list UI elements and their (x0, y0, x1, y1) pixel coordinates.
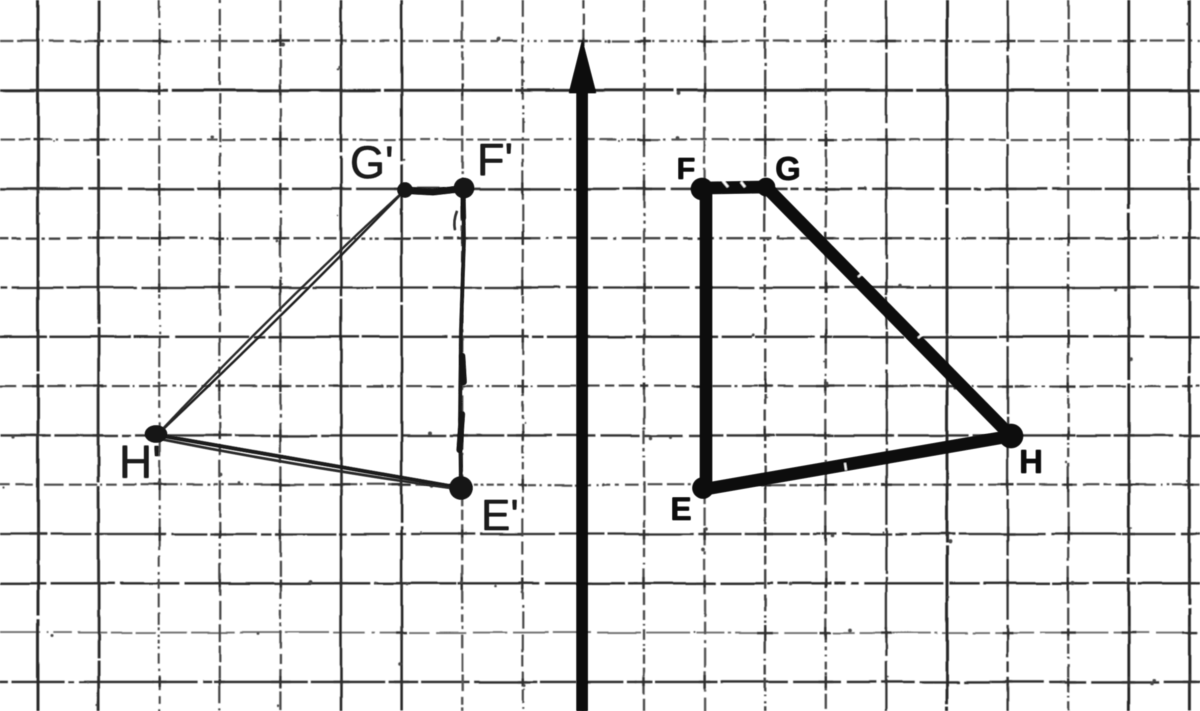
vertex dot H (999, 424, 1023, 448)
svg-text:E: E (670, 491, 691, 527)
stray pencil tick near F'E' (454, 211, 457, 230)
svg-text:G': G' (350, 137, 394, 188)
svg-text:F': F' (477, 134, 513, 185)
quadrilateral EFGH (preimage, thick marker) (706, 187, 1011, 489)
svg-text:E': E' (481, 491, 519, 540)
photocopy nick on edge HE (845, 463, 846, 470)
edge F'E' (460, 188, 464, 488)
axis of reflection (vertical arrow) (569, 40, 596, 711)
photocopy nicks on edge FG (723, 181, 745, 187)
svg-text:F: F (677, 151, 696, 186)
vertex dot G' (398, 183, 413, 198)
edge G'F' (405, 189, 464, 193)
edge G'H' (double stroke) (157, 190, 405, 435)
svg-text:H': H' (119, 436, 161, 488)
vertex dot F' (454, 178, 474, 198)
vertex dot E (693, 478, 714, 499)
heavy retrace on F'E' (462, 356, 464, 382)
svg-text:H: H (1019, 443, 1043, 480)
svg-text:G: G (775, 150, 801, 187)
vertex dot F (691, 178, 713, 200)
edge H'E' (double stroke) (157, 435, 461, 488)
vertex dot H' (145, 426, 167, 443)
vertex dot E' (450, 477, 473, 500)
vertex dot G (757, 178, 775, 196)
photocopy nicks on edge GH (858, 272, 924, 338)
